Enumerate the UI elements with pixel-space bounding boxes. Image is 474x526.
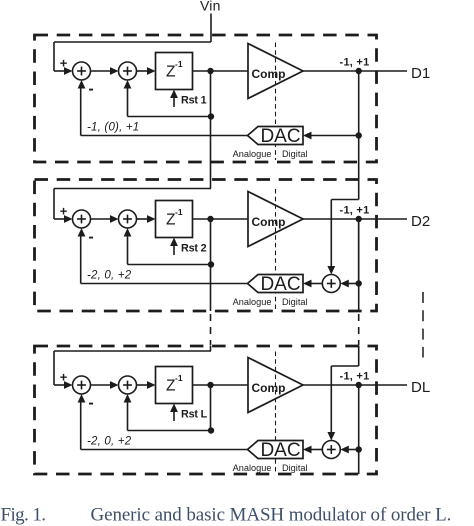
svg-text:DL: DL: [411, 379, 430, 396]
svg-text:-: -: [88, 81, 93, 98]
svg-text:-1: -1: [175, 373, 183, 383]
svg-text:D1: D1: [411, 65, 430, 82]
svg-text:Rst 1: Rst 1: [181, 95, 207, 107]
svg-text:-: -: [88, 395, 93, 412]
svg-text:DAC: DAC: [260, 274, 300, 295]
svg-text:Comp: Comp: [252, 215, 286, 229]
svg-text:DAC: DAC: [260, 126, 300, 147]
svg-text:DAC: DAC: [260, 440, 300, 461]
svg-text:+: +: [60, 56, 68, 71]
svg-text:Rst 2: Rst 2: [181, 243, 207, 255]
svg-text:Comp: Comp: [252, 67, 286, 81]
svg-text:Analogue: Analogue: [233, 463, 272, 473]
svg-text:-2, 0, +2: -2, 0, +2: [87, 270, 132, 282]
svg-text:Analogue: Analogue: [233, 149, 272, 159]
svg-text:Generic and basic MASH modulat: Generic and basic MASH modulator of orde…: [91, 505, 452, 526]
svg-text:Rst L: Rst L: [181, 409, 208, 421]
svg-text:Digital: Digital: [282, 463, 308, 473]
svg-text:Comp: Comp: [252, 381, 286, 395]
svg-text:Fig. 1.: Fig. 1.: [1, 505, 46, 526]
svg-text:D2: D2: [411, 213, 430, 230]
svg-text:Digital: Digital: [282, 149, 308, 159]
svg-text:Vin: Vin: [200, 0, 221, 14]
svg-text:-1, +1: -1, +1: [340, 57, 370, 69]
svg-text:+: +: [60, 204, 68, 219]
svg-text:-1, +1: -1, +1: [340, 371, 370, 383]
svg-text:Digital: Digital: [282, 297, 308, 307]
svg-text:Analogue: Analogue: [233, 297, 272, 307]
svg-text:-1, (0), +1: -1, (0), +1: [87, 122, 139, 134]
svg-text:-1, +1: -1, +1: [340, 205, 370, 217]
svg-text:-2, 0, +2: -2, 0, +2: [87, 436, 132, 448]
svg-text:-: -: [88, 229, 93, 246]
svg-text:-1: -1: [175, 207, 183, 217]
svg-text:-1: -1: [175, 59, 183, 69]
svg-text:+: +: [60, 370, 68, 385]
